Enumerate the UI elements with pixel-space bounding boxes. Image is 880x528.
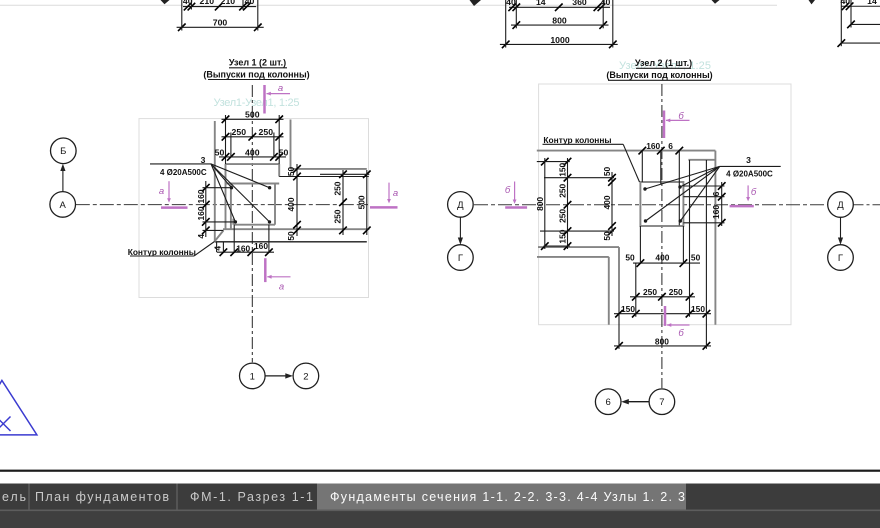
dim chain 250 250 right of left figure xyxy=(342,170,344,235)
svg-text:Г: Г xyxy=(458,253,463,264)
svg-text:Контур колонны: Контур колонны xyxy=(543,135,611,145)
svg-text:а: а xyxy=(159,186,164,197)
outline: square right figure xyxy=(640,182,683,226)
svg-text:(Выпуски под колонны): (Выпуски под колонны) xyxy=(606,70,712,80)
extension short for 250 dim xyxy=(230,133,232,158)
svg-text:2: 2 xyxy=(303,371,308,382)
svg-text:б: б xyxy=(678,111,684,122)
outline: left outer edge xyxy=(214,121,216,242)
dim chain 50 400 50 inner left xyxy=(611,172,613,236)
outline: step right horizontal 1 xyxy=(291,168,367,170)
svg-text:400: 400 xyxy=(655,253,669,263)
dim block top-right (clipped) xyxy=(841,5,880,7)
extension line right bottom (uses 229-230 line) xyxy=(367,228,370,230)
arrow 1 to 2 xyxy=(266,375,291,377)
dim chain 160 160 4 left side xyxy=(205,181,207,237)
axis line D stub right xyxy=(854,204,880,206)
svg-text:4 Ø20А500С: 4 Ø20А500С xyxy=(726,169,773,178)
svg-text:250: 250 xyxy=(259,127,274,137)
svg-text:б: б xyxy=(505,185,511,196)
svg-text:Д: Д xyxy=(837,200,844,211)
svg-text:50: 50 xyxy=(279,147,289,157)
svg-text:250: 250 xyxy=(557,209,567,223)
svg-text:160: 160 xyxy=(646,141,660,151)
svg-text:250: 250 xyxy=(232,127,247,137)
axis circle G left xyxy=(448,245,474,271)
svg-text:150: 150 xyxy=(691,304,705,314)
svg-text:500: 500 xyxy=(356,195,366,209)
svg-text:4 Ø20А500С: 4 Ø20А500С xyxy=(160,168,207,177)
svg-text:40: 40 xyxy=(506,0,516,7)
tab bar background xyxy=(0,484,880,510)
extension lines left chain xyxy=(203,187,232,189)
viewport rectangle right xyxy=(539,84,791,325)
section marker a right xyxy=(370,206,398,209)
outline: square right side xyxy=(274,184,276,225)
svg-text:50: 50 xyxy=(625,253,635,263)
svg-text:150: 150 xyxy=(621,304,635,314)
svg-text:40: 40 xyxy=(840,0,850,6)
svg-text:50: 50 xyxy=(286,231,296,241)
svg-text:б: б xyxy=(751,187,757,198)
svg-text:Д: Д xyxy=(457,200,464,211)
dim 800 bottom right figure xyxy=(614,345,711,347)
svg-text:50: 50 xyxy=(602,231,612,241)
svg-text:210: 210 xyxy=(200,0,215,6)
viewport rectangle left xyxy=(139,119,369,298)
svg-text:500: 500 xyxy=(245,110,260,120)
dim 160 6 top right figure xyxy=(639,147,647,155)
outline: square left side xyxy=(230,184,232,230)
drawing area bottom border xyxy=(0,470,880,472)
axis circle D right xyxy=(828,192,854,218)
svg-text:40: 40 xyxy=(245,0,255,6)
svg-text:4: 4 xyxy=(196,234,206,239)
svg-text:(Выпуски под колонны): (Выпуски под колонны) xyxy=(203,69,309,79)
section marker b right right figure xyxy=(730,205,754,208)
outline: step right horizontal 2 / extension xyxy=(279,176,369,178)
extension lines right chain xyxy=(683,185,724,187)
svg-text:Узел 2 (1 шт.): Узел 2 (1 шт.) xyxy=(635,58,692,68)
dim 500 left figure xyxy=(222,118,284,120)
svg-text:3: 3 xyxy=(746,155,751,165)
rebar dots left figure xyxy=(230,186,233,189)
node circle 7 xyxy=(649,389,675,415)
svg-text:360: 360 xyxy=(572,0,587,7)
svg-text:160: 160 xyxy=(254,241,268,251)
svg-text:4: 4 xyxy=(212,246,222,251)
dim block top-middle: chain xyxy=(509,6,610,8)
section marker b bottom right figure xyxy=(664,306,667,326)
dim 150 150 bottom right figure xyxy=(614,313,711,315)
svg-text:а: а xyxy=(393,188,398,199)
axis circle A xyxy=(50,192,76,218)
svg-text:ель: ель xyxy=(2,490,26,504)
svg-text:160: 160 xyxy=(711,205,721,219)
svg-text:Фундаменты сечения 1-1. 2-2. 3: Фундаменты сечения 1-1. 2-2. 3-3. 4-4 Уз… xyxy=(330,490,685,504)
svg-text:700: 700 xyxy=(213,18,228,28)
extension lines top-right block xyxy=(840,0,842,46)
dim 800 left of right figure xyxy=(544,158,546,249)
svg-text:160: 160 xyxy=(236,244,250,254)
svg-text:800: 800 xyxy=(535,197,545,211)
axis circle G right xyxy=(828,245,854,271)
section marker b top right figure xyxy=(663,111,666,139)
leader arrowhead top-mid xyxy=(470,0,482,6)
outline: step left 1 horizontal xyxy=(538,246,619,248)
svg-text:а: а xyxy=(279,282,284,293)
centerline vertical right figure xyxy=(661,84,663,388)
svg-text:50: 50 xyxy=(602,167,612,177)
arrow D to G xyxy=(459,217,461,242)
svg-text:Узел 1 (2 шт.): Узел 1 (2 шт.) xyxy=(229,57,286,67)
outline: right outer edge xyxy=(714,151,716,325)
svg-text:210: 210 xyxy=(221,0,236,6)
dim block top-left: chain 40,210,210,40 xyxy=(183,6,256,8)
extension verticals bottom right figure xyxy=(618,314,620,349)
outline: upper rect left side xyxy=(225,115,227,184)
outline: square bottom xyxy=(234,224,275,226)
svg-text:14: 14 xyxy=(536,0,546,7)
dim 50 400 50 left figure xyxy=(219,156,286,158)
svg-text:150: 150 xyxy=(557,162,567,176)
dim 50 400 50 bottom right figure xyxy=(633,262,700,264)
outline: foundation top edge right figure xyxy=(537,150,716,152)
outline: chamfer corner xyxy=(215,231,224,242)
outline: step left 2 vertical xyxy=(608,257,610,325)
outline: square top xyxy=(226,183,280,185)
svg-text:40: 40 xyxy=(601,0,611,7)
svg-text:160: 160 xyxy=(196,189,206,203)
dim chain 4 160 160 bottom left figure xyxy=(217,251,274,253)
node circle 1 xyxy=(240,363,266,389)
node circle 6 xyxy=(595,389,621,415)
section marker a top xyxy=(263,85,266,114)
svg-text:14: 14 xyxy=(867,0,877,6)
svg-text:400: 400 xyxy=(602,195,612,209)
rebar stem xyxy=(232,219,234,225)
arrow from A to B xyxy=(62,166,64,191)
svg-text:1: 1 xyxy=(250,371,255,382)
extension lines left chains xyxy=(537,161,570,163)
arrow 7 to 6 xyxy=(624,401,649,403)
dim line 2 top-right xyxy=(851,23,880,25)
dim 1000 top-middle xyxy=(500,43,618,45)
outline: upper rect right side xyxy=(278,115,280,177)
svg-text:б: б xyxy=(678,328,684,339)
axis circle D left xyxy=(448,192,474,218)
dim 250 250 left figure xyxy=(222,136,284,138)
svg-text:50: 50 xyxy=(215,147,225,157)
blue marker X xyxy=(0,417,11,432)
outline: bottom edge long xyxy=(215,241,367,243)
outline: lower horizontal line xyxy=(223,228,367,230)
svg-text:800: 800 xyxy=(552,16,567,26)
svg-text:250: 250 xyxy=(643,287,657,297)
leader arrowhead top-right xyxy=(809,0,816,4)
leader arrowhead top-mid2 xyxy=(712,0,720,4)
arrow D to G right xyxy=(840,218,842,243)
svg-text:800: 800 xyxy=(655,336,669,346)
bottom strip xyxy=(0,510,880,528)
axis line A horizontal xyxy=(76,204,368,206)
blue marker triangle xyxy=(0,380,37,435)
outline: step left 2 horizontal xyxy=(537,256,609,258)
active tab background xyxy=(317,484,686,510)
leader lines to rebars right figure xyxy=(645,166,720,189)
svg-text:ФМ-1. Разрез 1-1: ФМ-1. Разрез 1-1 xyxy=(190,490,313,504)
axis circle B xyxy=(51,138,77,164)
extension lines bottom chain xyxy=(216,242,218,252)
svg-text:250: 250 xyxy=(333,209,343,223)
dim 800 top-middle xyxy=(511,24,609,26)
svg-text:50: 50 xyxy=(286,167,296,177)
dim 700 top-left xyxy=(177,26,264,28)
node circle 2 xyxy=(293,363,319,389)
extension lines top-left block xyxy=(181,0,183,31)
section marker b left right figure xyxy=(505,206,527,209)
section marker a left xyxy=(161,206,188,209)
dim chain 150 250 250 150 left xyxy=(567,158,569,249)
svg-text:250: 250 xyxy=(669,287,683,297)
svg-text:6: 6 xyxy=(668,141,673,151)
svg-text:6: 6 xyxy=(711,191,721,196)
svg-text:Б: Б xyxy=(60,146,66,157)
leader arrowhead top-left xyxy=(161,0,170,4)
extension line right top xyxy=(320,173,369,175)
svg-text:400: 400 xyxy=(286,197,296,211)
svg-text:250: 250 xyxy=(557,183,567,197)
svg-text:Узел1-Узел1, 1:25: Узел1-Узел1, 1:25 xyxy=(214,97,300,109)
dim 500 right of left figure xyxy=(366,170,368,235)
svg-text:160: 160 xyxy=(196,206,206,220)
dim chain 6 160 right side xyxy=(721,182,723,226)
dim line 3 top-right xyxy=(841,42,880,44)
dim 250 250 bottom right figure xyxy=(630,296,695,298)
outline: upper rect top xyxy=(226,163,280,165)
svg-text:400: 400 xyxy=(245,147,260,157)
svg-text:250: 250 xyxy=(333,181,343,195)
section marker a bottom xyxy=(264,258,267,282)
extension lines top-middle block xyxy=(505,0,507,48)
svg-text:50: 50 xyxy=(691,253,701,263)
svg-text:А: А xyxy=(60,200,67,211)
outline: step left 1 vertical xyxy=(618,247,620,314)
outline: step right upper vertical xyxy=(290,120,292,169)
svg-text:Г: Г xyxy=(838,253,843,264)
axis line D horizontal xyxy=(474,204,828,206)
faint viewport line top xyxy=(0,4,777,6)
rebar dots right figure xyxy=(643,187,646,190)
svg-text:а: а xyxy=(278,83,283,94)
svg-text:7: 7 xyxy=(659,397,664,408)
svg-text:1000: 1000 xyxy=(550,35,569,45)
svg-text:6: 6 xyxy=(606,397,611,408)
tab separators xyxy=(28,484,30,510)
outline: step right small xyxy=(688,159,715,161)
centerline vertical left figure xyxy=(251,85,253,362)
dim chain 50 400 50 rotated right-inner xyxy=(296,164,298,236)
leader lines to rebars left figure xyxy=(211,164,232,188)
